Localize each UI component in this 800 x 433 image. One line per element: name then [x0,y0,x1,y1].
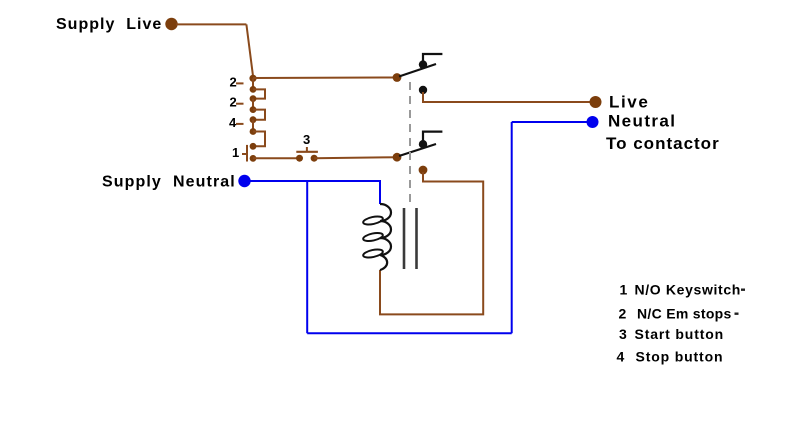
node: start button right terminal [311,155,318,162]
tick: label pointer 4 [236,123,244,125]
wire: supply live down slant [246,24,253,78]
switch: N/C Em stop 2b contact jog [253,110,265,120]
relay contact 1: moving arm [399,64,436,77]
coil: left lobe 2 [362,231,383,242]
tick: label pointer 1 [242,153,246,155]
relay contact 1: upper terminal lead [423,54,442,66]
wire: blue bottom horizontal [307,332,512,334]
wire: chain vertical segment 2 [252,99,254,110]
node: Neutral output terminal [587,116,599,128]
svg-text:2: 2 [230,74,237,89]
svg-text:Supply Neutral: Supply Neutral [102,174,236,191]
switch: stop button 4 contact jog [253,132,265,147]
relay contact 1: lower fixed contact node [419,86,427,94]
relay contact 2: upper terminal lead [423,132,442,146]
node: switch 2b lower terminal [250,116,257,123]
switch: keyswitch 1 blade [246,145,248,162]
relay contact 2: common terminal node [393,153,402,162]
coil: relay coil spring arc 2 [380,221,391,238]
node: switch 4 upper terminal [250,128,257,135]
svg-text:4: 4 [229,115,237,130]
svg-text:4: 4 [617,349,625,365]
relay contact 1: common terminal node [393,73,402,82]
node: supply neutral terminal [238,175,250,187]
wire: supply neutral branch down [306,181,308,333]
relay contact 2: moving arm [399,144,436,156]
node: switch 2b upper terminal [250,106,257,113]
wire: blue right vertical up [511,122,513,333]
legend: item 2 trailing mark [735,313,739,315]
coil: relay coil spring arc 4 [380,255,387,270]
switch: N/C Em stop 2a contact jog [253,89,265,98]
svg-text:N/O Keyswitch: N/O Keyswitch [635,282,741,298]
wire: chain vertical segment 3 [252,120,254,132]
svg-text:To contactor: To contactor [606,134,720,153]
node: supply live terminal [165,18,177,30]
coil: left lobe 1 [362,215,383,226]
tick: label pointer 2b [236,103,244,105]
coil: relay coil spring arc 3 [380,238,391,255]
node: keyswitch 1 lower terminal [250,155,257,162]
node: junction top of switch chain [249,75,256,82]
wire: supply live horizontal [176,23,246,25]
svg-text:2: 2 [230,94,237,109]
coil: left lobe 3 [362,248,383,259]
legend: item 1 trailing mark [741,289,745,291]
switch: start button stem [306,147,308,152]
coil: relay coil spring arc 1 [380,204,391,221]
svg-text:1: 1 [620,282,628,298]
svg-text:Supply Live: Supply Live [56,16,162,33]
svg-text:Neutral: Neutral [608,111,676,130]
node: Live output terminal [590,96,602,108]
relay contact 2: upper fixed contact node [419,140,427,148]
tick: label pointer 2a [236,82,244,84]
switch: start button plate [296,151,318,153]
svg-text:Live: Live [609,93,649,112]
svg-text:N/C Em stops: N/C Em stops [637,306,732,322]
wire: supply neutral horizontal to coil [250,181,380,204]
node: keyswitch 1 upper terminal [250,143,257,150]
node: switch 2a upper terminal [250,86,257,93]
svg-text:Stop button: Stop button [636,349,724,365]
wire: bottom row left [253,157,300,159]
linkage: dashed mechanical link [409,82,411,205]
core: relay core line 2 [415,208,418,269]
svg-text:1: 1 [232,145,239,160]
wire: chain vertical segment 1 [252,78,254,89]
svg-text:3: 3 [619,326,627,342]
wire: relay contact 2 to coil bottom loop [380,172,483,314]
wire: bottom row right to relay contact 2 [314,157,397,158]
wire: top row to relay contact 1 [253,77,397,80]
wire: relay contact 1 to Live terminal [423,92,592,102]
node: switch 2a lower terminal [250,95,257,102]
svg-text:3: 3 [303,132,310,147]
core: relay core line 1 [403,208,406,269]
node: start button left terminal [296,155,303,162]
svg-text:2: 2 [619,306,627,322]
relay contact 1: upper fixed contact node [419,60,427,68]
svg-text:Start button: Start button [635,326,725,342]
relay contact 2: lower fixed contact node [419,166,428,175]
wire: blue to Neutral terminal [512,121,589,123]
